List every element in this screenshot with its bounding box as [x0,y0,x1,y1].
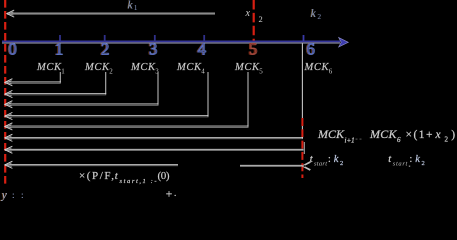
tick 6 [303,35,305,41]
riser from MCK2 [105,72,107,94]
svg-text:k: k [334,154,339,165]
middle red dashed cursor line (tick 5) [253,0,255,42]
axis number 0 [7,40,17,59]
svg-text:×(P/F,: ×(P/F, [79,170,114,182]
svg-text:5: 5 [250,40,258,59]
hook line 6 [5,136,303,138]
svg-text:x: x [435,129,442,141]
svg-text::: : [12,190,15,200]
equals dots [356,139,358,140]
svg-text:MCK: MCK [84,62,110,73]
hook arrowhead 2 [5,90,13,97]
svg-text:MCK: MCK [369,127,397,141]
svg-text:t: t [388,154,392,165]
hook line 2 [5,93,106,95]
hook arrowhead 1 [5,79,13,86]
axis number 1 [54,40,64,59]
svg-text:0: 0 [9,40,17,59]
svg-text:1: 1 [134,3,138,12]
svg-text::: : [328,154,331,165]
top span left arrowhead [7,10,14,17]
tick 1 [59,35,61,41]
svg-text:k: k [415,154,420,165]
svg-text::: : [410,154,413,165]
hook line 1 [5,81,61,83]
left red dashed cursor line [4,0,6,184]
tick 4 [203,35,205,41]
riser from MCK3 [157,72,159,105]
svg-text:4: 4 [198,40,207,59]
svg-text:4: 4 [201,68,205,76]
svg-text:k: k [128,0,134,11]
hook line 3 [5,103,159,105]
time axis [2,40,340,42]
svg-text:y: y [1,190,8,202]
hook arrowhead 3 [5,101,13,108]
hook line 4 [5,115,209,117]
svg-text:1: 1 [61,68,65,76]
svg-text:1: 1 [55,40,63,59]
svg-text:6: 6 [397,136,401,144]
svg-text:2: 2 [317,12,321,21]
right red dashed cursor line [301,118,303,178]
svg-text:2: 2 [102,40,110,59]
svg-text:MCK: MCK [176,62,202,73]
span line 8 (left part) [5,163,178,165]
svg-text:MCK: MCK [130,62,156,73]
svg-text:(0): (0) [158,170,170,182]
svg-text:start: start [314,161,327,168]
axis number 3 [148,40,158,59]
riser from MCK4 [207,72,209,116]
riser from MCK5 [247,72,249,127]
top span line [7,12,215,14]
svg-text:MCK: MCK [304,62,330,73]
hook arrowhead 4 [5,112,13,119]
svg-text:2: 2 [259,14,263,24]
svg-text:2: 2 [109,68,113,76]
svg-text:i+1: i+1 [345,137,355,145]
riser from MCK1 [59,72,61,83]
svg-text:×(1+: ×(1+ [406,129,433,141]
svg-text:6: 6 [329,68,333,76]
right segment arrowhead at cursor [302,162,311,171]
svg-text:.: . [174,188,176,198]
svg-text:5: 5 [259,68,263,76]
axis arrowhead [339,38,349,47]
tick 2 [104,35,106,41]
svg-text:k: k [311,8,317,20]
svg-text:3: 3 [150,40,158,59]
svg-text:start: start [393,161,408,168]
hook arrowhead 5 [5,123,13,130]
svg-text:2: 2 [422,160,425,167]
svg-text:x: x [245,8,251,19]
hook line 5 [5,125,249,127]
hook arrowhead 6 [5,134,13,141]
riser from tick 6 [301,44,303,140]
small dot under second label [409,166,410,167]
svg-text:2: 2 [340,160,343,167]
axis number 6 [306,40,316,59]
svg-text:6: 6 [307,40,315,59]
axis number 2 [100,40,110,59]
span arrowhead 8 [5,161,13,168]
svg-text::: : [21,190,24,200]
svg-text:start,1 :-: start,1 :- [120,178,157,185]
svg-text:MCK: MCK [234,62,260,73]
axis number 5 (red) [248,40,258,59]
axis number 4 [197,40,208,59]
span arrowhead 7 [5,146,13,153]
svg-text:t: t [115,170,119,182]
tick 3 [154,35,156,41]
svg-text:): ) [451,129,455,141]
svg-text:+: + [166,189,173,201]
short stub right of red line [303,142,305,154]
svg-text:2: 2 [445,136,449,144]
span line 7 [5,148,304,150]
svg-text:3: 3 [155,68,159,76]
span line right segment [240,164,302,166]
svg-text:MCK: MCK [36,62,62,73]
svg-text:MCK: MCK [317,127,345,141]
